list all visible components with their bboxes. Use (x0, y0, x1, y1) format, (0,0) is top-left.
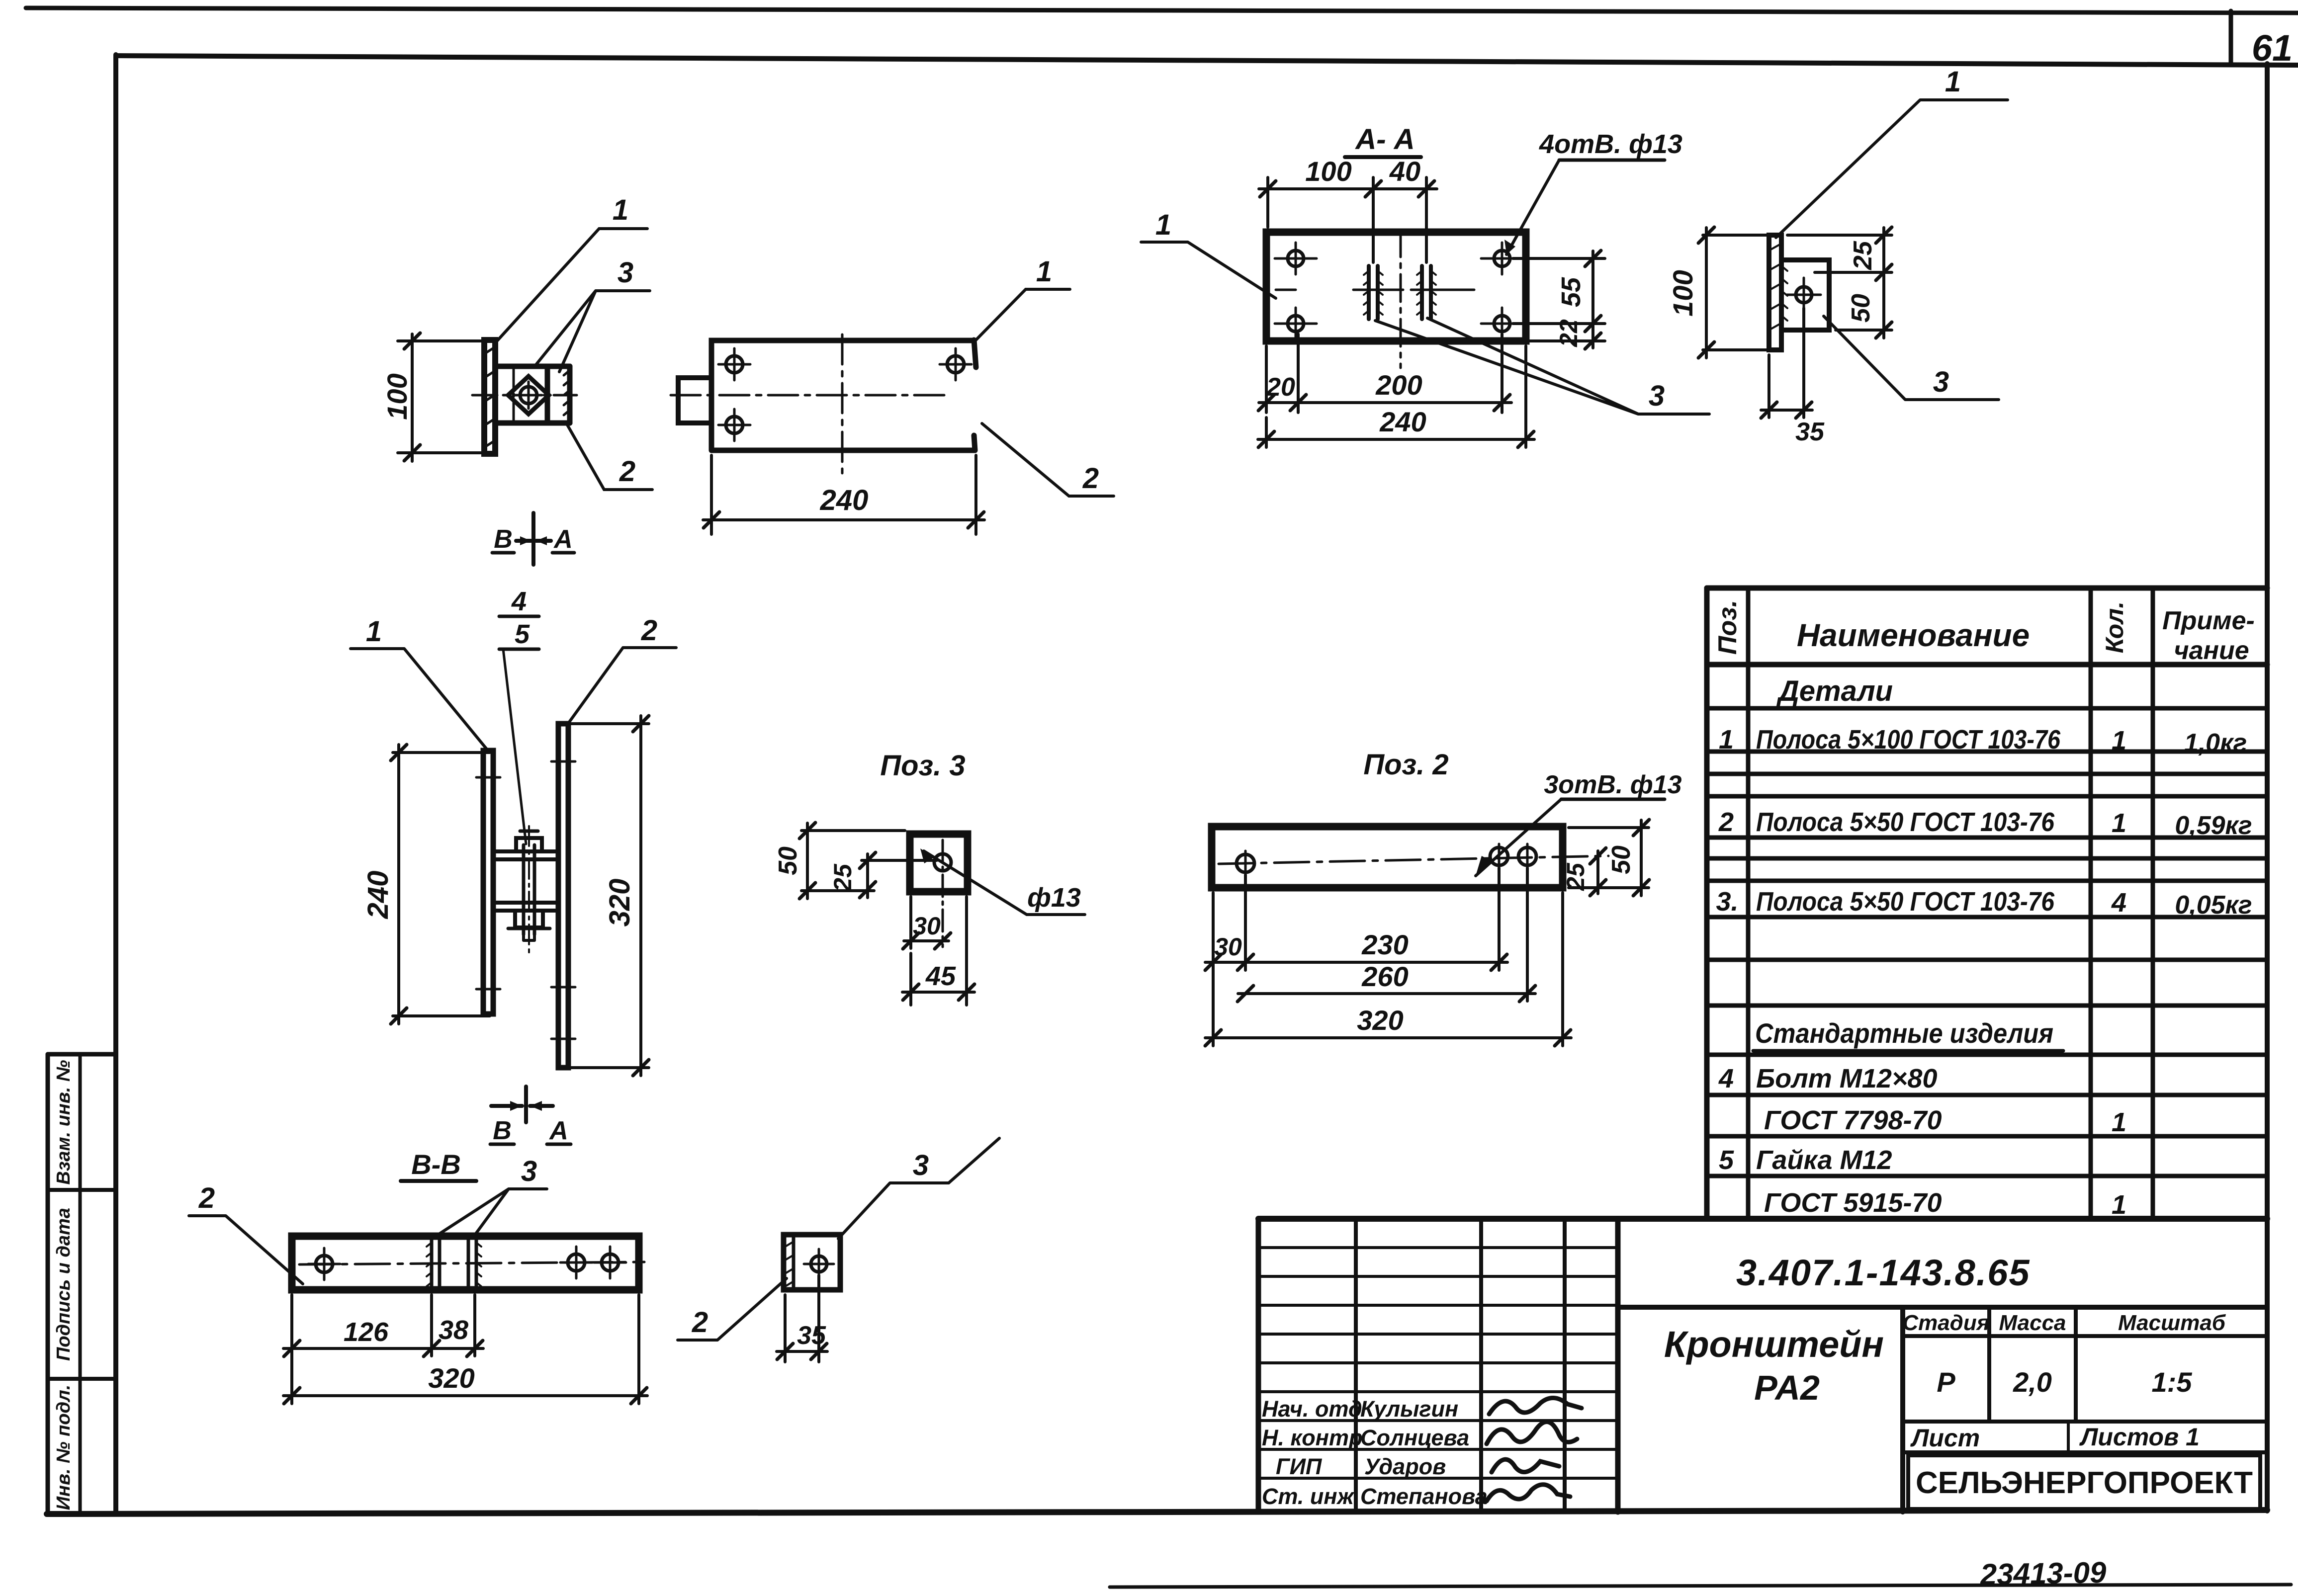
svg-text:Стадия: Стадия (1902, 1311, 1989, 1335)
item 3 end tab (678, 378, 711, 423)
svg-text:1: 1 (2112, 1190, 2126, 1220)
item 3 square (910, 834, 968, 892)
hole (Поз.3) (934, 854, 951, 871)
svg-text:50: 50 (1847, 294, 1875, 323)
item 2 strip (В-В) (292, 1236, 639, 1290)
svg-text:Н. контр: Н. контр (1262, 1425, 1362, 1450)
svg-text:35: 35 (797, 1321, 826, 1350)
svg-text:240: 240 (1379, 406, 1426, 437)
svg-text:3: 3 (913, 1149, 929, 1181)
dim 20 / 200 (A-A bottom) (1258, 334, 1511, 413)
svg-text:1: 1 (2112, 726, 2126, 756)
svg-text:Стандартные изделия: Стандартные изделия (1755, 1017, 2053, 1049)
centerline horizontal (view B) (671, 394, 947, 397)
svg-text:22: 22 (1555, 319, 1583, 347)
dim 35 (view I) (777, 1275, 827, 1362)
hole left-bottom (726, 417, 743, 433)
svg-text:3.: 3. (1716, 887, 1738, 917)
svg-text:240: 240 (820, 484, 869, 516)
svg-text:Поз. 2: Поз. 2 (1363, 749, 1448, 781)
centerline horizontal dashes (1276, 289, 1474, 291)
svg-text:чание: чание (2174, 636, 2249, 665)
dim 100 / 40 (A-A top) (1259, 177, 1437, 262)
svg-text:Листов 1: Листов 1 (2079, 1423, 2200, 1451)
dim 320 (Поз.2) (1205, 1036, 1571, 1039)
item 3 serrated end block (567, 366, 573, 423)
svg-text:Полоса 5×50 ГОСТ 103-76: Полоса 5×50 ГОСТ 103-76 (1756, 887, 2055, 917)
item 1 plate (vertical strip) (484, 340, 495, 454)
svg-text:126: 126 (344, 1317, 389, 1347)
svg-text:Масштаб: Масштаб (2118, 1311, 2226, 1335)
svg-text:25: 25 (1562, 862, 1590, 891)
svg-text:45: 45 (925, 961, 956, 991)
svg-text:40: 40 (1389, 156, 1420, 187)
svg-text:4: 4 (511, 587, 527, 616)
svg-text:55: 55 (1556, 277, 1586, 307)
leader 1 (view A) (495, 229, 647, 343)
leader 2 (view E) (567, 648, 676, 725)
svg-text:3: 3 (1649, 380, 1665, 412)
slot centerline ticks (1353, 289, 1456, 291)
leader 3 (A-A slots) (1375, 318, 1709, 414)
svg-text:Болт М12×80: Болт М12×80 (1756, 1064, 1937, 1093)
dim 320 (view E) (567, 716, 649, 1076)
svg-text:320: 320 (1357, 1005, 1403, 1036)
holes (В-В) (316, 1256, 333, 1272)
svg-text:Кол.: Кол. (2101, 601, 2128, 653)
svg-text:50: 50 (1607, 845, 1636, 874)
svg-text:0,05кг: 0,05кг (2175, 891, 2252, 920)
section plane mark B-A (lower) (491, 1087, 553, 1122)
item 1 plate edge (1769, 235, 1781, 350)
leader ф13 (924, 851, 1085, 915)
centerline (В-В) (299, 1262, 644, 1264)
svg-text:А: А (553, 525, 573, 554)
svg-text:В-В: В-В (411, 1149, 461, 1180)
holes (Поз.2) (1237, 854, 1254, 872)
svg-text:Взам. инв. №: Взам. инв. № (53, 1060, 74, 1185)
leader 1 (view B) (974, 289, 1070, 342)
item 3 block with item 2 edge (784, 1235, 840, 1290)
hole left-top (726, 356, 743, 373)
hole RB (1494, 316, 1510, 332)
nut 5 (515, 911, 543, 927)
leader 2 (view B) (982, 423, 1114, 496)
dim 240 (view E) (391, 745, 490, 1024)
svg-text:1: 1 (613, 194, 628, 226)
svg-text:Кронштейн: Кронштейн (1664, 1324, 1884, 1365)
bolt 4 (524, 845, 534, 934)
item 3 block (1781, 260, 1829, 330)
drawing frame right (2265, 64, 2270, 1511)
svg-text:ГОСТ 7798-70: ГОСТ 7798-70 (1764, 1105, 1942, 1135)
svg-text:В: В (493, 1116, 512, 1145)
item 1 strip (483, 751, 493, 1014)
drawing frame top (116, 56, 2298, 65)
svg-text:А- А: А- А (1354, 123, 1414, 156)
leader 3 (view D) (1824, 316, 1999, 400)
svg-text:Кулыгин: Кулыгин (1360, 1396, 1458, 1422)
svg-text:1,0кг: 1,0кг (2184, 729, 2247, 757)
svg-text:20: 20 (1266, 373, 1295, 402)
item 1 plate outline (711, 340, 976, 450)
svg-text:Ударов: Ударов (1364, 1454, 1446, 1479)
svg-text:Нач. отд: Нач. отд (1262, 1396, 1362, 1422)
dim 100 (view D) (1698, 227, 1772, 358)
svg-text:2: 2 (619, 455, 635, 488)
centerline vertical (view B) (841, 335, 844, 473)
svg-text:Детали: Детали (1776, 675, 1893, 707)
svg-text:30: 30 (1214, 933, 1242, 961)
svg-text:Наименование: Наименование (1797, 617, 2030, 653)
drawing frame left (113, 55, 118, 1512)
svg-text:38: 38 (439, 1315, 468, 1345)
svg-text:3: 3 (618, 256, 633, 289)
svg-text:50: 50 (774, 846, 802, 875)
bolt head rhombus (508, 376, 549, 414)
vertical centerline between slots (1400, 230, 1402, 368)
svg-text:СЕЛЬЭНЕРГОПРОЕКТ: СЕЛЬЭНЕРГОПРОЕКТ (1916, 1466, 2253, 1500)
item 2 strip (558, 724, 568, 1068)
svg-text:2: 2 (692, 1306, 708, 1339)
leader 3 (view I) (838, 1183, 949, 1239)
svg-text:Поз.: Поз. (1713, 600, 1742, 655)
svg-text:Масса: Масса (1999, 1311, 2066, 1335)
svg-text:ГИП: ГИП (1276, 1454, 1323, 1479)
svg-text:А: А (548, 1116, 568, 1145)
hole (view I) (811, 1256, 827, 1272)
centerline vertical (bolt axis) (513, 369, 515, 421)
dim 126 / 38 (В-В) (283, 1295, 483, 1404)
svg-text:3.407.1-143.8.65: 3.407.1-143.8.65 (1736, 1252, 2031, 1293)
svg-text:Инв. № подл.: Инв. № подл. (53, 1385, 74, 1511)
svg-text:3: 3 (1933, 366, 1949, 398)
svg-text:1: 1 (1719, 725, 1734, 755)
left sidebar stamp box (46, 1054, 50, 1514)
svg-text:100: 100 (381, 373, 413, 420)
svg-text:25: 25 (1849, 241, 1877, 270)
leader 2 (В-В) (189, 1216, 303, 1284)
dim 240 (view B) (703, 455, 984, 534)
hole (view D) (1796, 287, 1812, 303)
hole RT (1494, 251, 1510, 266)
svg-text:Поз. 3: Поз. 3 (880, 750, 965, 782)
svg-text:230: 230 (1361, 929, 1408, 960)
dim 50 (Поз.2 right) (1569, 820, 1649, 896)
dim 25 (Поз.2 right) (1590, 848, 1606, 896)
dim 45 (Поз.3) (902, 897, 974, 1005)
svg-text:4: 4 (2111, 888, 2126, 918)
dim 50 (Поз.3) (799, 823, 905, 899)
slot left (weld) (1369, 266, 1378, 319)
svg-text:Полоса 5×100 ГОСТ 103-76: Полоса 5×100 ГОСТ 103-76 (1756, 725, 2061, 755)
svg-text:Степанова: Степанова (1360, 1484, 1488, 1509)
leader 2 (view A) (567, 424, 652, 490)
dim 100 (view A) (398, 333, 492, 461)
dim 25 / 50 (view D right) (1787, 227, 1892, 338)
leader to hole (1506, 160, 1559, 254)
svg-text:4: 4 (1718, 1064, 1734, 1093)
svg-text:ГОСТ 5915-70: ГОСТ 5915-70 (1764, 1188, 1942, 1218)
svg-text:0,59кг: 0,59кг (2175, 811, 2252, 840)
leader 3 (view A) (535, 291, 650, 372)
plate hatch ticks (484, 347, 495, 447)
top border line (26, 8, 2298, 13)
svg-text:61: 61 (2252, 27, 2293, 69)
svg-text:240: 240 (362, 871, 394, 920)
svg-text:4отВ. ф13: 4отВ. ф13 (1539, 129, 1682, 159)
item 3 clamp body (495, 366, 570, 423)
section plane mark B-A (upper) (516, 513, 551, 565)
svg-text:100: 100 (1305, 156, 1351, 187)
item 3 clamp plates (493, 851, 558, 859)
leader 3 (В-В) (437, 1189, 547, 1236)
leader 1 (A-A) (1141, 242, 1276, 298)
bottom edge line (1110, 1585, 2291, 1587)
svg-text:5: 5 (515, 619, 530, 649)
svg-text:5: 5 (1719, 1145, 1734, 1175)
dim 260 (Поз.2) (1238, 992, 1535, 995)
svg-text:1: 1 (1155, 209, 1171, 241)
svg-text:2: 2 (1718, 807, 1734, 837)
svg-text:Подпись и дата: Подпись и дата (53, 1208, 74, 1361)
leader 2 (view I) (678, 1278, 787, 1340)
dim 35 (view D bottom) (1761, 308, 1812, 418)
svg-text:2: 2 (1082, 462, 1099, 495)
svg-text:3: 3 (521, 1155, 537, 1187)
centerline horizontal (472, 394, 577, 397)
bolt hole circle (520, 387, 537, 404)
hole LB (1288, 316, 1304, 332)
svg-text:Солнцева: Солнцева (1360, 1425, 1469, 1450)
dim 240 (A-A bottom) (1258, 346, 1534, 447)
dim 30 / 230 (Поз.2) (1205, 961, 1507, 964)
svg-text:Р: Р (1937, 1366, 1955, 1398)
svg-text:1:5: 1:5 (2152, 1366, 2193, 1398)
dim 320 (В-В) (283, 1295, 647, 1404)
PARTS-TABLE (1707, 588, 2267, 1219)
svg-text:Лист: Лист (1910, 1424, 1980, 1452)
svg-text:Ст. инж: Ст. инж (1262, 1484, 1355, 1509)
svg-text:30: 30 (913, 912, 941, 940)
hole LT (1288, 251, 1304, 266)
svg-text:2,0: 2,0 (2013, 1366, 2052, 1398)
svg-text:1: 1 (1036, 255, 1052, 288)
svg-text:Гайка М12: Гайка М12 (1756, 1145, 1892, 1175)
svg-text:260: 260 (1361, 961, 1408, 992)
svg-text:25: 25 (829, 863, 857, 892)
slot right (weld) (1422, 266, 1431, 319)
hole right-top (947, 356, 964, 373)
svg-text:3отВ. ф13: 3отВ. ф13 (1544, 770, 1681, 799)
bolt centerline (528, 826, 530, 953)
svg-text:1: 1 (2112, 808, 2126, 838)
centerline (Поз.2) (1219, 856, 1608, 864)
svg-text:1: 1 (2112, 1107, 2126, 1137)
svg-text:320: 320 (604, 879, 636, 927)
item 2 strip (Поз.2) (1212, 827, 1563, 888)
svg-text:Полоса 5×50 ГОСТ 103-76: Полоса 5×50 ГОСТ 103-76 (1756, 807, 2055, 837)
weld tick marks (476, 777, 500, 989)
svg-text:200: 200 (1375, 369, 1422, 401)
extension lines below (Поз.2) (1213, 868, 1563, 1046)
svg-text:2: 2 (198, 1182, 215, 1214)
dim 30 (Поз.3) (903, 897, 951, 949)
svg-text:Приме-: Приме- (2162, 606, 2255, 635)
svg-text:РА2: РА2 (1754, 1368, 1820, 1407)
svg-text:2: 2 (641, 614, 657, 647)
svg-text:В: В (494, 525, 513, 554)
dim 25 (Поз.3) (860, 852, 937, 898)
leader 1 (view D) (1776, 100, 2008, 238)
signature scribbles (1489, 1398, 1582, 1414)
svg-text:320: 320 (428, 1362, 474, 1394)
weld slots (В-В) (432, 1236, 440, 1290)
drawing frame bottom (47, 1510, 2267, 1514)
item 1 plate (section) (1266, 232, 1526, 341)
sheet number box divider (2229, 11, 2233, 64)
svg-text:1: 1 (1945, 66, 1961, 98)
TITLE-BLOCK (1258, 1219, 2267, 1512)
svg-text:100: 100 (1667, 270, 1698, 316)
svg-text:ф13: ф13 (1027, 883, 1081, 913)
leader to middle hole (1476, 799, 1561, 876)
dim 55 / 22 (A-A right) (1513, 251, 1605, 349)
leader 1 (view E) (351, 649, 489, 752)
svg-text:35: 35 (1795, 418, 1825, 446)
svg-text:1: 1 (366, 615, 382, 648)
